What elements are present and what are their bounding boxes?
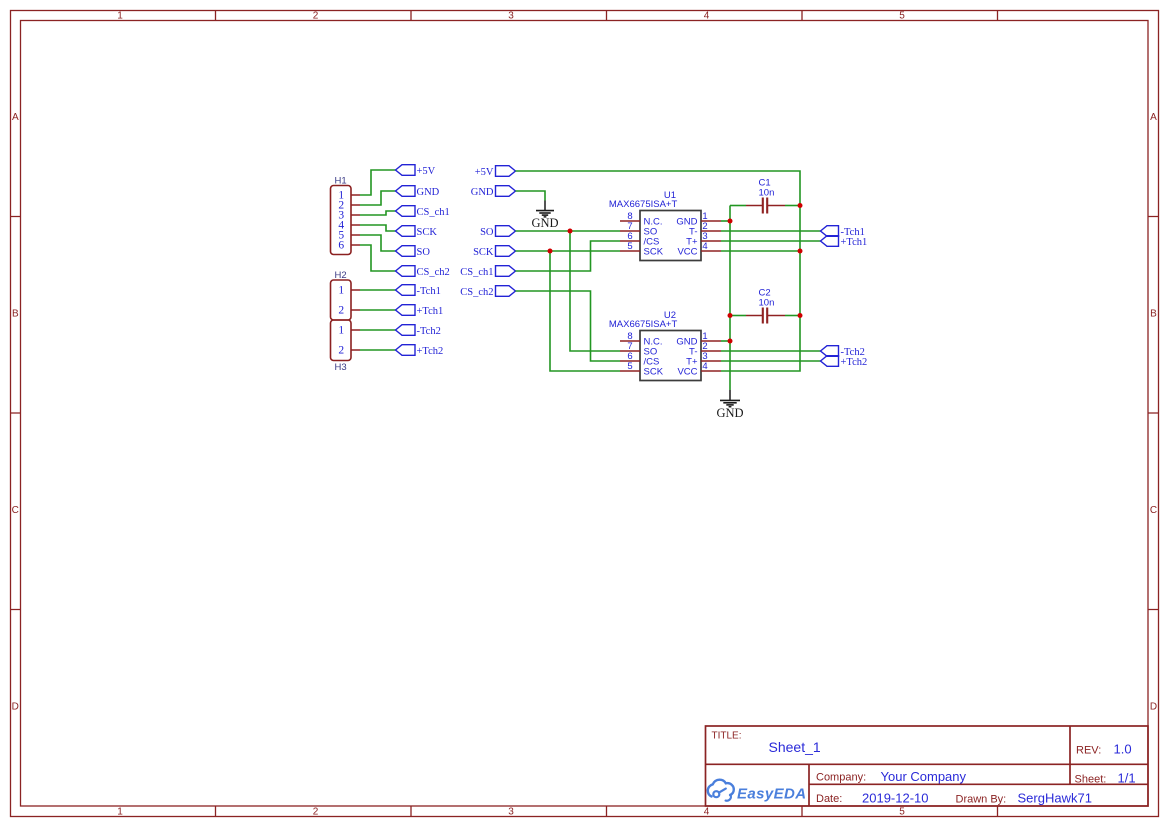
net flag +Tch2 (right) <box>821 356 868 368</box>
net flag CS_ch2 (mid) <box>460 286 515 298</box>
wire H3 pin2 to +Tch2 flag <box>360 349 396 351</box>
pin 8 N.C. <box>620 340 640 342</box>
wire U1 VCC to +5V rail <box>721 250 800 252</box>
svg-text:5: 5 <box>627 361 632 372</box>
svg-text:SCK: SCK <box>417 227 438 238</box>
svg-text:A: A <box>1150 112 1157 123</box>
net flag SO (left) <box>396 246 431 258</box>
wire U1 T+ to +Tch1 flag <box>721 240 821 242</box>
junction on SCK net <box>548 249 553 254</box>
wire H1 pin2 to GND flag <box>360 191 396 205</box>
wire H1 pin6 to CS_ch2 flag <box>360 245 396 271</box>
svg-text:4: 4 <box>702 361 707 372</box>
svg-text:CS_ch2: CS_ch2 <box>417 267 450 278</box>
svg-text:5: 5 <box>899 807 905 818</box>
svg-text:H3: H3 <box>335 362 347 373</box>
svg-text:5: 5 <box>627 241 632 252</box>
svg-text:1: 1 <box>338 285 344 297</box>
svg-text:1: 1 <box>117 11 123 22</box>
pin 2 T- <box>701 230 721 232</box>
wire U2 pin1 to GND rail <box>721 340 730 342</box>
net flag +Tch1 (right) <box>821 236 868 248</box>
svg-text:SO: SO <box>417 247 431 258</box>
svg-text:SCK: SCK <box>644 246 664 257</box>
net flag -Tch1 (left) <box>396 285 441 297</box>
wire U2 T+ to +Tch2 flag <box>721 360 821 362</box>
svg-text:4: 4 <box>704 11 710 22</box>
svg-text:Date:: Date: <box>816 793 842 805</box>
wire H2 pin1 to -Tch1 flag <box>360 289 396 291</box>
svg-text:C: C <box>12 505 19 516</box>
svg-text:+5V: +5V <box>417 166 436 177</box>
net flag SCK (left) <box>396 226 438 238</box>
svg-text:GND: GND <box>531 216 558 230</box>
wire U1 T- to -Tch1 flag <box>721 230 821 232</box>
connector H3 <box>331 320 361 373</box>
svg-text:4: 4 <box>702 241 707 252</box>
net flag -Tch1 (right) <box>821 226 865 238</box>
svg-text:SCK: SCK <box>644 366 664 377</box>
svg-text:TITLE:: TITLE: <box>712 731 742 742</box>
svg-text:2: 2 <box>338 305 344 317</box>
wire U1 pin1 to GND rail <box>721 220 730 222</box>
pin 4 VCC <box>701 370 721 372</box>
connector H1 <box>331 176 361 255</box>
wire net +5V rail <box>516 171 801 371</box>
capacitor C1 <box>746 177 785 213</box>
svg-text:SO: SO <box>480 227 494 238</box>
svg-text:5: 5 <box>899 11 905 22</box>
pin 6 /CS <box>620 240 640 242</box>
wire net GND vertical rail <box>729 206 731 391</box>
wire net SO <box>516 230 621 232</box>
pin 3 T+ <box>701 360 721 362</box>
ground symbol (bottom) <box>716 390 743 420</box>
pin 6 /CS <box>620 360 640 362</box>
net flag +5V (left) <box>396 165 436 177</box>
svg-text:+Tch1: +Tch1 <box>417 306 444 317</box>
pin 1 GND <box>701 340 721 342</box>
junction on SO net <box>568 229 573 234</box>
svg-text:2: 2 <box>313 11 319 22</box>
svg-text:Drawn By:: Drawn By: <box>956 793 1007 805</box>
wire H2 pin2 to +Tch1 flag <box>360 309 396 311</box>
svg-text:CS_ch1: CS_ch1 <box>417 207 450 218</box>
net flag +Tch1 (left) <box>396 305 444 317</box>
svg-text:GND: GND <box>417 187 440 198</box>
svg-text:Sheet:: Sheet: <box>1075 773 1107 785</box>
pin 7 SO <box>620 230 640 232</box>
pin 7 SO <box>620 350 640 352</box>
svg-text:-Tch1: -Tch1 <box>417 286 441 297</box>
svg-text:2: 2 <box>338 345 344 357</box>
wire C1 right lead <box>785 205 800 207</box>
junction C2 left GND <box>728 313 733 318</box>
svg-text:1.0: 1.0 <box>1114 742 1132 757</box>
wire U2 T- to -Tch2 flag <box>721 350 821 352</box>
junction C1 right +5V <box>798 203 803 208</box>
svg-text:CS_ch1: CS_ch1 <box>460 267 493 278</box>
net flag CS_ch2 (left) <box>396 266 450 278</box>
svg-text:4: 4 <box>704 807 710 818</box>
pin 2 T- <box>701 350 721 352</box>
op-amp U2 (IC MAX6675ISA+T) <box>609 310 721 381</box>
wire net SCK to U2 <box>550 251 620 371</box>
connector H2 <box>331 270 361 320</box>
svg-text:1: 1 <box>338 325 344 337</box>
wire GND flag to ground <box>516 191 546 201</box>
capacitor C2 <box>746 287 785 323</box>
svg-text:+Tch2: +Tch2 <box>841 357 868 368</box>
svg-text:GND: GND <box>471 187 494 198</box>
net flag +Tch2 (left) <box>396 345 444 357</box>
svg-text:B: B <box>12 308 19 319</box>
svg-text:3: 3 <box>508 11 514 22</box>
svg-text:VCC: VCC <box>677 366 697 377</box>
net flag SO (mid) <box>480 226 515 238</box>
svg-text:GND: GND <box>716 406 743 420</box>
wire net SCK <box>516 250 621 252</box>
junction U1 pin1 GND <box>728 219 733 224</box>
wire H1 pin4 to SCK flag <box>360 225 396 231</box>
svg-text:-Tch2: -Tch2 <box>417 326 441 337</box>
net flag SCK (mid) <box>473 246 515 258</box>
svg-text:C: C <box>1150 505 1157 516</box>
EasyEDA logo <box>708 780 807 803</box>
svg-text:2019-12-10: 2019-12-10 <box>862 790 929 805</box>
svg-text:MAX6675ISA+T: MAX6675ISA+T <box>609 199 678 210</box>
svg-text:EasyEDA: EasyEDA <box>737 786 807 803</box>
pin 5 SCK <box>620 250 640 252</box>
svg-text:VCC: VCC <box>677 246 697 257</box>
pin 3 T+ <box>701 240 721 242</box>
svg-text:D: D <box>12 701 19 712</box>
svg-text:B: B <box>1150 308 1157 319</box>
svg-text:H1: H1 <box>335 176 347 187</box>
svg-text:1/1: 1/1 <box>1118 770 1136 785</box>
junction U2 pin1 GND <box>728 339 733 344</box>
svg-text:+Tch1: +Tch1 <box>841 237 868 248</box>
svg-text:6: 6 <box>338 240 344 252</box>
net flag CS_ch1 (mid) <box>460 266 515 278</box>
junction C2 right +5V <box>798 313 803 318</box>
wire C2 left lead <box>730 315 746 317</box>
wire C1 left lead <box>730 205 746 207</box>
svg-text:H2: H2 <box>335 270 347 281</box>
ground symbol (top) <box>531 201 558 230</box>
junction U1 VCC +5V <box>798 249 803 254</box>
svg-text:CS_ch2: CS_ch2 <box>460 287 493 298</box>
svg-text:Your Company: Your Company <box>881 769 967 784</box>
svg-text:1: 1 <box>117 807 123 818</box>
svg-text:SCK: SCK <box>473 247 494 258</box>
wire H3 pin1 to -Tch2 flag <box>360 329 396 331</box>
svg-text:+Tch2: +Tch2 <box>417 346 444 357</box>
wire H1 pin5 to SO flag <box>360 235 396 251</box>
svg-text:SergHawk71: SergHawk71 <box>1018 790 1092 805</box>
svg-text:Company:: Company: <box>816 772 866 784</box>
svg-text:10n: 10n <box>759 187 775 198</box>
svg-text:A: A <box>12 112 19 123</box>
net flag -Tch2 (left) <box>396 325 441 337</box>
pin 1 GND <box>701 220 721 222</box>
wire C2 right lead <box>785 315 800 317</box>
svg-text:REV:: REV: <box>1076 745 1101 757</box>
svg-text:3: 3 <box>508 807 514 818</box>
wire net CS_ch2 <box>516 291 621 361</box>
net flag -Tch2 (right) <box>821 346 865 358</box>
wire net SO to U2 <box>570 231 620 351</box>
op-amp U1 (IC MAX6675ISA+T) <box>609 190 721 261</box>
pin 4 VCC <box>701 250 721 252</box>
svg-text:2: 2 <box>313 807 319 818</box>
svg-text:MAX6675ISA+T: MAX6675ISA+T <box>609 319 678 330</box>
svg-text:D: D <box>1150 701 1157 712</box>
wire net CS_ch1 <box>516 241 621 271</box>
net flag +5V (mid) <box>475 166 516 178</box>
net flag GND (mid) <box>471 186 516 198</box>
net flag CS_ch1 (left) <box>396 206 450 218</box>
TITLE BLOCK <box>706 726 1149 806</box>
svg-text:10n: 10n <box>759 297 775 308</box>
pin 5 SCK <box>620 370 640 372</box>
wire H1 pin1 to +5V flag <box>360 170 396 195</box>
wire H1 pin3 to CS_ch1 flag <box>360 211 396 215</box>
svg-text:+5V: +5V <box>475 167 494 178</box>
svg-text:Sheet_1: Sheet_1 <box>769 739 821 755</box>
pin 8 N.C. <box>620 220 640 222</box>
net flag GND (left) <box>396 186 440 198</box>
